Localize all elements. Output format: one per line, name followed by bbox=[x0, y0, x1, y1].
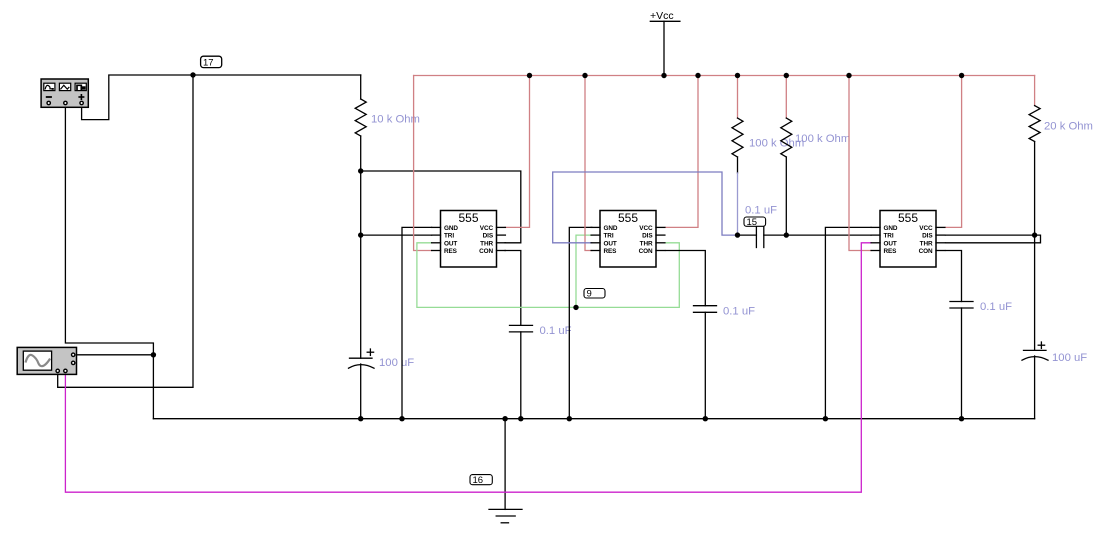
svg-text:VCC: VCC bbox=[480, 225, 494, 232]
svg-text:10 k Ohm: 10 k Ohm bbox=[371, 114, 420, 126]
svg-text:RES: RES bbox=[884, 248, 898, 255]
svg-text:CON: CON bbox=[479, 248, 493, 255]
capacitor C3 0.1 uF bbox=[694, 306, 717, 419]
wire: function generator common down and across to scope node bbox=[65, 107, 153, 355]
wire: scope node down to ground bus bbox=[152, 355, 154, 419]
wire: function generator + output to 10k (black top wire) bbox=[82, 75, 361, 120]
node: bus ground bbox=[502, 416, 507, 421]
node: 17 junction bbox=[190, 72, 195, 77]
node: bus C2 bbox=[518, 416, 523, 421]
node: coupling left bbox=[735, 232, 740, 237]
capacitor C4 0.1 uF coupling bbox=[738, 226, 787, 248]
svg-text:17: 17 bbox=[203, 58, 214, 69]
wire: green OUT of U1 to TRI/THR of U2 bbox=[417, 243, 679, 308]
svg-text:VCC: VCC bbox=[639, 225, 653, 232]
wire: GND of U3 to ground bus bbox=[825, 227, 871, 418]
svg-text:0.1 uF: 0.1 uF bbox=[723, 306, 755, 318]
wire: node 17 drop to scope ground lead bbox=[58, 75, 193, 387]
svg-text:9: 9 bbox=[587, 289, 592, 300]
svg-text:0.1 uF: 0.1 uF bbox=[540, 325, 572, 337]
svg-text:16: 16 bbox=[473, 475, 484, 486]
node: rail R3 bbox=[784, 73, 789, 78]
oscilloscope XSC1 bbox=[17, 347, 76, 374]
svg-text:TRI: TRI bbox=[604, 233, 614, 240]
svg-text:THR: THR bbox=[920, 240, 933, 247]
node: rail R2 bbox=[735, 73, 740, 78]
wire: blue OUT of U2 to coupling node bbox=[553, 172, 738, 243]
svg-text:0.1 uF: 0.1 uF bbox=[980, 301, 1012, 313]
svg-text:OUT: OUT bbox=[884, 240, 897, 247]
node: bus C1 bbox=[358, 416, 363, 421]
wire: magenta OUT of U3 to scope bbox=[65, 243, 871, 492]
svg-text:THR: THR bbox=[640, 240, 653, 247]
svg-text:VCC: VCC bbox=[919, 225, 933, 232]
wire: GND of U2 to ground bus bbox=[569, 227, 592, 418]
capacitor C6 100 uF electrolytic bbox=[1022, 342, 1048, 419]
resistor R1 10 k Ohm bbox=[355, 75, 366, 358]
svg-text:TRI: TRI bbox=[884, 233, 894, 240]
svg-text:+Vcc: +Vcc bbox=[650, 10, 674, 22]
svg-text:555: 555 bbox=[618, 211, 638, 225]
function generator XFG1 bbox=[41, 79, 88, 107]
wire: coupling node to TRI of U3 bbox=[786, 234, 871, 236]
wire: R1/C1 node to THR of U1 bbox=[361, 171, 521, 243]
svg-text:GND: GND bbox=[884, 225, 898, 232]
resistor R2 100 k Ohm bbox=[732, 76, 743, 236]
node: rail RES U2 bbox=[582, 73, 587, 78]
svg-text:CON: CON bbox=[639, 248, 653, 255]
node: bus C5 bbox=[959, 416, 964, 421]
node: R1 TRI tap bbox=[358, 232, 363, 237]
wire: CON of U1 to C2 bbox=[505, 251, 521, 326]
wire: GND of U1 to ground bus bbox=[402, 227, 432, 418]
555 timer U1 bbox=[432, 211, 506, 268]
svg-text:0.1 uF: 0.1 uF bbox=[745, 205, 777, 217]
node: rail VCC U1 bbox=[527, 73, 532, 78]
resistor R3 100 k Ohm bbox=[781, 76, 792, 236]
svg-text:100 uF: 100 uF bbox=[1052, 352, 1087, 364]
+Vcc supply symbol bbox=[650, 21, 680, 75]
wire: Vcc rail (pink) bbox=[414, 75, 1035, 77]
node: R1 THR tap bbox=[358, 168, 363, 173]
wire: green tap to TRI of U2 bbox=[576, 235, 592, 307]
label 17 bbox=[201, 56, 222, 67]
svg-text:TRI: TRI bbox=[444, 233, 454, 240]
node: bus GND U2 bbox=[567, 416, 572, 421]
svg-text:OUT: OUT bbox=[604, 240, 617, 247]
wire: DIS of U3 to R4 node bbox=[946, 234, 1035, 236]
wire: pink RES of U3 to rail bbox=[849, 76, 871, 251]
svg-text:OUT: OUT bbox=[444, 240, 457, 247]
node: rail RES U3 bbox=[846, 73, 851, 78]
555 timer U2 bbox=[591, 211, 665, 268]
node: R4 DIS THR bbox=[1032, 232, 1037, 237]
svg-text:100 uF: 100 uF bbox=[379, 357, 414, 369]
node: green TRI tap bbox=[573, 305, 578, 310]
node: rail VCC U3 bbox=[959, 73, 964, 78]
svg-text:RES: RES bbox=[604, 248, 618, 255]
svg-text:DIS: DIS bbox=[483, 233, 494, 240]
wire: pink VCC of U2 to rail bbox=[666, 76, 699, 228]
wire: pink VCC of U1 to rail bbox=[505, 76, 530, 228]
node: bus C3 bbox=[703, 416, 708, 421]
svg-text:RES: RES bbox=[444, 248, 458, 255]
svg-text:15: 15 bbox=[747, 217, 758, 228]
wire: ground bus (bottom) bbox=[153, 418, 1034, 420]
svg-text:GND: GND bbox=[444, 225, 458, 232]
wire: THR of U3 loop to R4 node bbox=[946, 235, 1041, 243]
svg-text:DIS: DIS bbox=[642, 233, 653, 240]
wire: CON of U3 to C5 bbox=[946, 251, 962, 302]
wire: pink RES of U2 to rail bbox=[585, 76, 592, 251]
label 16 bbox=[470, 475, 492, 485]
svg-text:100 k Ohm: 100 k Ohm bbox=[795, 133, 850, 145]
svg-text:20 k Ohm: 20 k Ohm bbox=[1044, 121, 1093, 133]
label 15 bbox=[744, 217, 766, 226]
wire: pink RES of U1 to rail bbox=[414, 76, 432, 251]
node: scope input bbox=[151, 352, 156, 357]
svg-text:555: 555 bbox=[458, 211, 478, 225]
capacitor C2 0.1 uF bbox=[510, 325, 533, 418]
node: bus GND U3 bbox=[823, 416, 828, 421]
svg-text:DIS: DIS bbox=[922, 233, 933, 240]
resistor R4 20 k Ohm bbox=[1029, 76, 1040, 351]
ground symbol bbox=[489, 419, 522, 523]
wire: oscilloscope channel input bbox=[77, 354, 154, 356]
capacitor C5 0.1 uF bbox=[950, 302, 973, 419]
svg-text:CON: CON bbox=[919, 248, 933, 255]
node: rail VCC U2 bbox=[695, 73, 700, 78]
wire: R1/C1 node to TRI of U1 bbox=[361, 234, 432, 236]
555 timer U3 bbox=[871, 211, 945, 268]
node: rail +Vcc tap bbox=[661, 73, 666, 78]
svg-text:THR: THR bbox=[480, 240, 493, 247]
label 9 bbox=[584, 289, 605, 299]
node: coupling right bbox=[784, 232, 789, 237]
node: bus GND U1 bbox=[399, 416, 404, 421]
wire: pink VCC of U3 to rail bbox=[946, 76, 962, 228]
capacitor C1 100 uF electrolytic bbox=[349, 349, 375, 419]
svg-text:GND: GND bbox=[604, 225, 618, 232]
svg-text:555: 555 bbox=[898, 211, 918, 225]
wire: CON of U2 to C3 bbox=[666, 251, 706, 306]
